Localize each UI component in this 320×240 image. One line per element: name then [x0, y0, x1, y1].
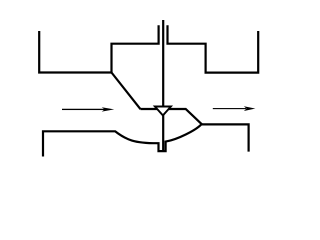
valve body upper-left outline with left packing line [39, 25, 158, 72]
seat line [141, 109, 203, 124]
valve body upper-right outline with right packing line [168, 25, 259, 72]
inlet lower wall, seat pocket and plug lower curve [43, 124, 202, 157]
valve plug triangle [155, 107, 171, 116]
valve stem [162, 20, 164, 151]
inlet flow arrow [62, 107, 114, 111]
body baffle diagonal wall [112, 73, 141, 110]
outlet lower wall [202, 124, 249, 151]
outlet flow arrow [213, 106, 256, 111]
